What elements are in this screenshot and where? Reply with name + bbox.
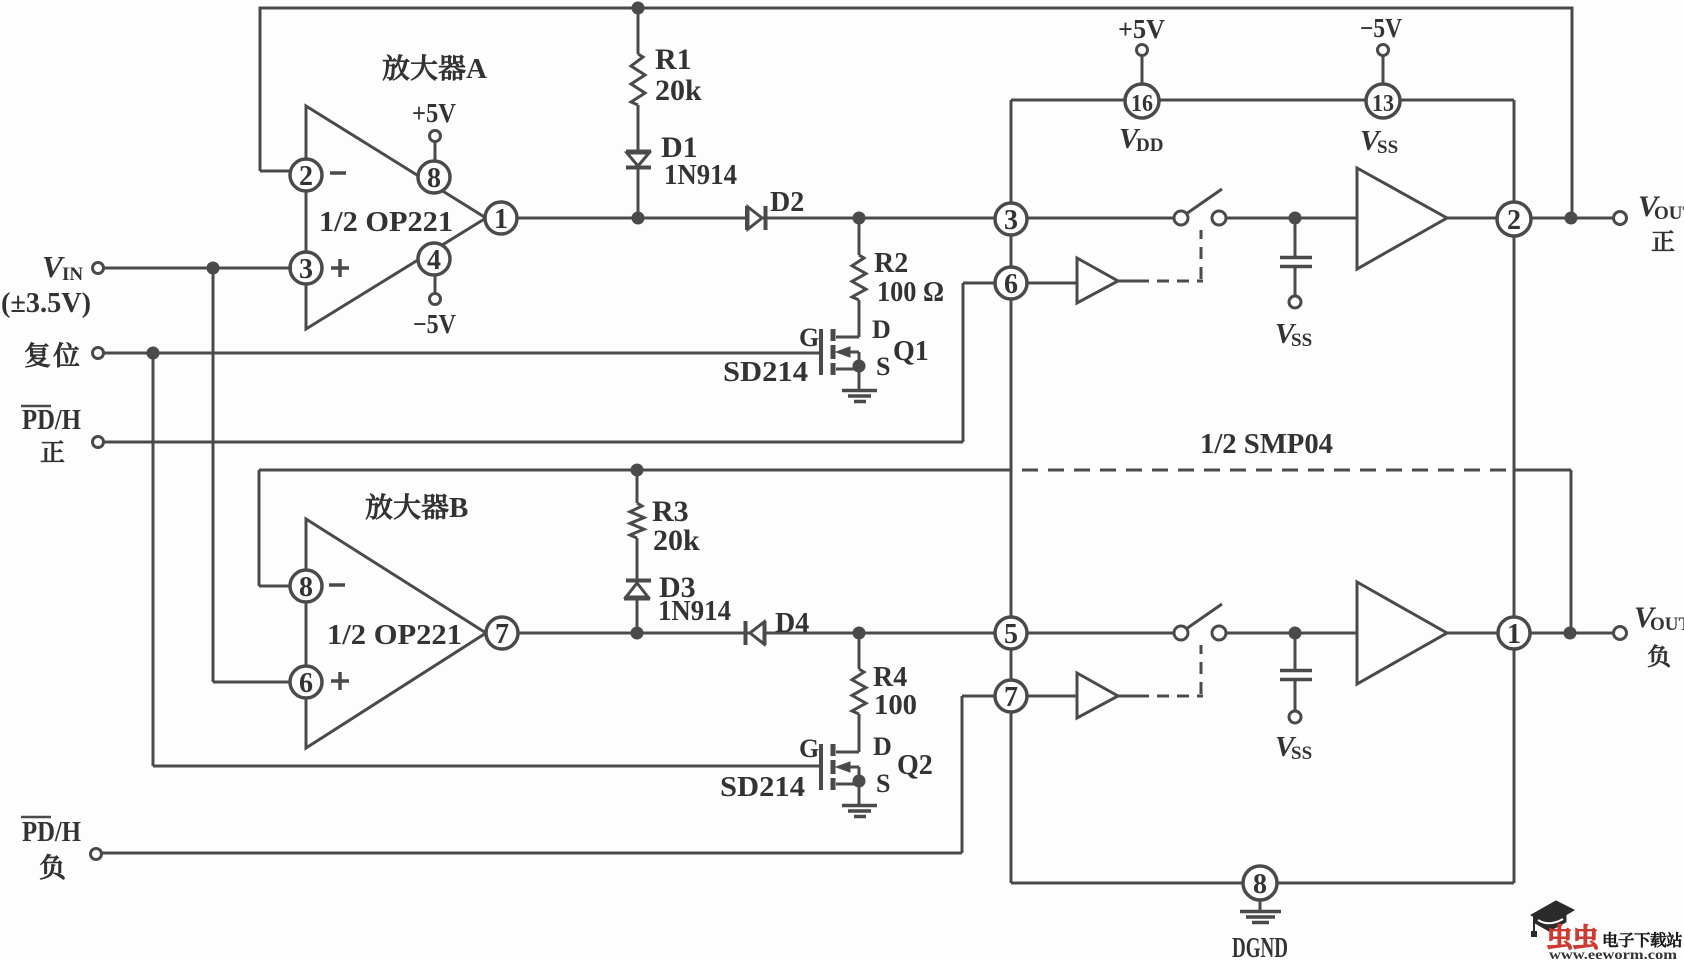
svg-text:2: 2	[1507, 205, 1521, 236]
svg-text:S: S	[876, 352, 890, 381]
switch driver buffer B	[1027, 695, 1077, 698]
wire (output B feedback riser)	[1514, 469, 1571, 472]
svg-text:20k: 20k	[655, 74, 702, 107]
svg-text:PD/H: PD/H	[22, 817, 81, 848]
node (复位 branch)	[147, 347, 160, 360]
pin 8 / +5V	[434, 141, 437, 162]
label 放大器A	[383, 54, 409, 80]
node (hold cap B)	[1289, 627, 1302, 640]
terminal V_OUT 正	[1614, 212, 1627, 225]
node (R4 top)	[853, 627, 866, 640]
ground (Q2 source)	[842, 804, 877, 808]
svg-text:D2: D2	[770, 187, 804, 218]
svg-text:16: 16	[1131, 91, 1153, 117]
capacitor C_B	[1294, 633, 1297, 669]
diode D3 1N914	[626, 579, 651, 583]
wire (pin 1 to V_OUT)	[1530, 632, 1614, 635]
svg-text:13: 13	[1372, 91, 1394, 117]
pin 8 (amp B inv)	[290, 570, 322, 602]
package divider (dashed, 1/2 SMP04)	[1022, 469, 1510, 472]
svg-text:1: 1	[494, 204, 508, 235]
svg-text:6: 6	[299, 668, 313, 699]
wire PD/H负 to pin 7 buffer	[102, 852, 962, 855]
wire (pin3 to switch)	[1027, 217, 1174, 220]
diode D4	[744, 621, 748, 645]
wire (复位 down to Q2 gate)	[152, 353, 155, 766]
svg-text:7: 7	[1004, 682, 1018, 713]
resistor R2	[858, 218, 861, 255]
terminal V_OUT 负	[1614, 627, 1627, 640]
svg-text:8: 8	[427, 163, 441, 194]
svg-text:100 Ω: 100 Ω	[877, 277, 944, 308]
pin 2	[290, 159, 322, 191]
node (R2 top)	[853, 212, 866, 225]
pin 4 / -5V	[434, 275, 437, 294]
svg-text:1N914: 1N914	[664, 160, 737, 191]
svg-text:SD214: SD214	[723, 357, 808, 388]
wire (SMP04 right edge)	[1513, 100, 1516, 883]
svg-text:6: 6	[1004, 269, 1018, 300]
node (D3/R3 to output)	[631, 627, 644, 640]
svg-text:8: 8	[299, 572, 313, 603]
pin 5	[995, 617, 1027, 649]
svg-text:S: S	[876, 769, 890, 798]
svg-text:(±3.5V): (±3.5V)	[1, 288, 91, 319]
svg-text:D4: D4	[775, 608, 809, 639]
watermark 电子下载站	[1604, 932, 1618, 947]
svg-text:G: G	[799, 734, 819, 763]
pin 3	[290, 252, 322, 284]
wire (amp B output to pin 5)	[518, 632, 995, 635]
wire (SMP04 left edge)	[1010, 100, 1013, 883]
wire (SMP04 top edge, VDD-VSS rail)	[1011, 99, 1514, 102]
pin 7	[995, 680, 1027, 712]
svg-text:2: 2	[299, 161, 313, 192]
switch (hold A)	[1174, 211, 1188, 225]
svg-text:A: A	[466, 53, 487, 85]
transistor Q2 SD214	[836, 751, 859, 754]
label 放大器B	[366, 493, 392, 519]
wire (SMP04 bottom edge)	[1011, 882, 1514, 885]
terminal PD/H 负	[91, 849, 102, 860]
switch driver buffer A	[1027, 282, 1077, 285]
svg-text:1/2 SMP04: 1/2 SMP04	[1200, 428, 1333, 460]
switch (hold B)	[1174, 626, 1188, 640]
svg-text:3: 3	[299, 254, 313, 285]
svg-text:SS: SS	[1377, 137, 1398, 158]
node (R1 top junction)	[632, 2, 645, 15]
pin 16 / V_DD / +5V	[1141, 55, 1144, 85]
op-amp U2 (1/2 OP221 amp B)	[306, 519, 486, 748]
capacitor C_A	[1294, 218, 1297, 256]
wire (switch to buffer A)	[1226, 217, 1357, 220]
wire (buffer B to pin 1)	[1447, 632, 1498, 635]
resistor R1	[637, 8, 640, 54]
pin 1 (amp A output)	[485, 202, 517, 234]
svg-text:100: 100	[874, 690, 917, 721]
svg-text:D: D	[872, 315, 891, 344]
svg-text:4: 4	[427, 245, 441, 276]
watermark logo (graduation cap)	[1531, 901, 1574, 937]
pin 2	[1497, 202, 1531, 236]
wire (V_IN down to amp B pin 6)	[212, 268, 215, 682]
svg-text:Q2: Q2	[897, 750, 933, 781]
wire (amp A output to pin 3 of SMP04)	[517, 217, 995, 220]
wire (pin5 to switch)	[1027, 632, 1174, 635]
dashed control link B	[1137, 695, 1203, 698]
svg-text:R4: R4	[873, 662, 907, 693]
wire 复位 to Q1 gate	[104, 352, 819, 355]
svg-text:+5V: +5V	[1118, 14, 1165, 44]
pin 6	[995, 267, 1027, 299]
diode D1 1N914	[626, 150, 651, 154]
dashed control link A	[1137, 280, 1203, 283]
buffer amp B (output driver)	[1357, 582, 1447, 684]
terminal V_IN	[93, 263, 104, 274]
pin 8 / DGND	[1243, 866, 1277, 900]
node (hold cap A)	[1289, 212, 1302, 225]
wire (buffer A to pin 2)	[1447, 217, 1497, 220]
wire PD/H正 to pin 6 buffer	[104, 441, 963, 444]
svg-text:7: 7	[495, 619, 509, 650]
svg-text:B: B	[449, 492, 468, 524]
pin 6 (amp B non-inv)	[290, 666, 322, 698]
svg-text:Q1: Q1	[893, 336, 929, 367]
svg-text:20k: 20k	[653, 524, 700, 557]
op-amp U1 (1/2 OP221 amp A)	[306, 106, 486, 329]
wire (amp A feedback top rail)	[260, 8, 1572, 218]
terminal PD/H 正	[93, 437, 104, 448]
wire V_IN	[104, 267, 292, 270]
node (D1/R1 to output)	[632, 212, 645, 225]
node (output A junction)	[1565, 212, 1578, 225]
terminal 复位	[93, 348, 104, 359]
svg-text:SS: SS	[1291, 743, 1312, 764]
diode D2	[745, 206, 749, 230]
svg-text:1/2 OP221: 1/2 OP221	[319, 206, 453, 238]
svg-text:1N914: 1N914	[658, 596, 731, 627]
wire (amp B feedback top rail)	[259, 469, 1010, 472]
node (V_IN branch)	[207, 262, 220, 275]
ground (Q1 source)	[842, 389, 877, 393]
svg-text:SD214: SD214	[720, 772, 805, 803]
svg-text:SS: SS	[1291, 330, 1312, 351]
svg-text:OUT: OUT	[1654, 203, 1684, 224]
resistor R3	[636, 470, 639, 503]
svg-text:+5V: +5V	[412, 98, 456, 128]
svg-text:1/2 OP221: 1/2 OP221	[327, 619, 462, 651]
watermark 虫虫	[1548, 924, 1571, 949]
transistor Q1 SD214	[836, 336, 859, 339]
svg-text:DD: DD	[1136, 135, 1163, 156]
svg-text:IN: IN	[62, 264, 83, 285]
svg-text:OUT: OUT	[1650, 614, 1684, 635]
buffer amp A (output driver)	[1357, 168, 1447, 269]
svg-text:3: 3	[1004, 205, 1018, 236]
node (output B junction)	[1564, 627, 1577, 640]
node (R3 top junction)	[631, 464, 644, 477]
svg-text:DGND: DGND	[1232, 933, 1288, 960]
svg-text:www.eeworm.com: www.eeworm.com	[1549, 947, 1678, 960]
pin 13 / V_SS / -5V	[1382, 55, 1385, 85]
wire (switch to buffer B)	[1226, 632, 1357, 635]
pin 3	[995, 203, 1027, 235]
wire (pin 2 to V_OUT)	[1531, 217, 1614, 220]
pin 7 (amp B output)	[486, 617, 518, 649]
svg-text:PD/H: PD/H	[22, 405, 81, 436]
svg-text:G: G	[799, 323, 819, 352]
svg-text:−5V: −5V	[413, 309, 456, 339]
svg-text:R1: R1	[655, 43, 692, 76]
svg-text:D: D	[873, 732, 892, 761]
svg-text:5: 5	[1004, 619, 1018, 650]
svg-text:R2: R2	[874, 248, 908, 279]
resistor R4	[858, 633, 861, 669]
svg-text:1: 1	[1507, 619, 1521, 650]
svg-text:−5V: −5V	[1360, 13, 1402, 43]
pin 1	[1498, 617, 1530, 649]
wire (feedback to pin 2)	[260, 170, 292, 173]
svg-text:8: 8	[1253, 869, 1267, 900]
ground DGND	[1259, 900, 1262, 911]
